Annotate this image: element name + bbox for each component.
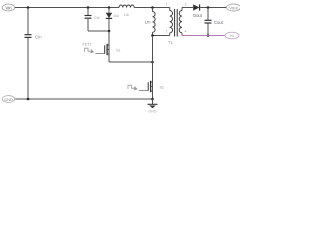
svg-text:Ccl: Ccl xyxy=(94,16,100,20)
wire Cin branch lower xyxy=(27,38,29,99)
wire diode to output port xyxy=(200,7,226,9)
port GND (bottom-left terminal) xyxy=(2,96,15,103)
inductor Llk (leakage inductance) xyxy=(119,5,134,17)
wire secondary return (magenta net) xyxy=(182,35,226,37)
svg-text:2: 2 xyxy=(166,30,168,34)
wire switch node vertical xyxy=(152,36,154,100)
port Vout (top-right output terminal) xyxy=(227,4,241,11)
svg-text:GND: GND xyxy=(4,97,13,102)
gate drive pulse symbol for Q1 xyxy=(83,43,94,53)
svg-text:Cout: Cout xyxy=(214,20,224,25)
wire clamp cap lower lead xyxy=(87,19,89,31)
wire clamp switch drain xyxy=(108,31,110,62)
wire zener lower lead xyxy=(108,19,110,31)
transistor Q2 (main MOSFET) xyxy=(148,81,164,92)
node Lm top xyxy=(151,6,154,9)
port Vo- (bottom-right return terminal) xyxy=(225,32,239,39)
node output bottom junction xyxy=(207,34,210,37)
node clamp cap top xyxy=(87,6,90,9)
wire Cin branch upper xyxy=(27,8,29,35)
transformer T1 core xyxy=(175,9,178,37)
svg-text:Llk: Llk xyxy=(124,13,129,17)
diode Dcl (clamp zener) xyxy=(106,13,119,19)
wire top rail left (Vin to Llk) xyxy=(15,7,119,9)
diode Dout (output rectifier) xyxy=(193,4,203,18)
capacitor Cin xyxy=(25,35,43,40)
svg-text:1: 1 xyxy=(166,3,168,7)
node Cin bottom junction xyxy=(27,98,30,101)
wire secondary top lead xyxy=(182,7,193,9)
ground xyxy=(148,99,158,114)
node clamp junction xyxy=(108,30,111,33)
svg-text:GND: GND xyxy=(149,110,157,114)
svg-text:FET1: FET1 xyxy=(83,43,92,47)
svg-text:3: 3 xyxy=(185,3,187,7)
svg-text:T1: T1 xyxy=(168,40,174,45)
svg-text:S1: S1 xyxy=(116,48,121,52)
wire top rail Llk to transformer xyxy=(134,7,170,9)
svg-text:Vo: Vo xyxy=(230,33,235,38)
svg-text:Dout: Dout xyxy=(193,13,203,18)
svg-text:4: 4 xyxy=(185,30,187,34)
node zener top xyxy=(108,6,111,9)
capacitor Cout xyxy=(205,20,224,25)
wire clamp bottom link xyxy=(88,30,109,32)
wire zener upper lead xyxy=(108,8,110,13)
wire Cout upper lead xyxy=(207,8,209,20)
svg-text:Vout: Vout xyxy=(229,5,238,10)
wire clamp source link xyxy=(109,61,153,63)
svg-text:Lm: Lm xyxy=(145,20,151,25)
transformer T1 primary winding xyxy=(166,3,173,36)
wire Cout lower lead xyxy=(207,24,209,36)
svg-text:S2: S2 xyxy=(160,85,165,89)
svg-text:Cin: Cin xyxy=(35,35,42,40)
node switch junction xyxy=(151,61,154,64)
transformer T1 secondary winding xyxy=(179,3,186,36)
node ground junction xyxy=(151,98,154,101)
wire primary bottom link xyxy=(153,35,170,37)
svg-text:Dcl: Dcl xyxy=(114,14,120,18)
inductor Lm (magnetizing inductance) xyxy=(145,8,155,36)
svg-text:Vin: Vin xyxy=(5,5,12,10)
gate drive pulse symbol for Q2 xyxy=(128,85,137,90)
node Lm bottom xyxy=(151,34,154,37)
transistor Q1 (clamp MOSFET) xyxy=(105,44,121,55)
wire bottom rail xyxy=(15,98,153,100)
node output top junction xyxy=(207,6,210,9)
wire Q1 gate lead xyxy=(96,53,105,55)
wire clamp cap upper lead xyxy=(87,8,89,16)
wire Q2 gate lead xyxy=(139,90,148,92)
node input junction xyxy=(27,6,30,9)
capacitor Ccl (clamp capacitor) xyxy=(85,16,100,21)
port Vin (top-left input terminal) xyxy=(2,4,15,11)
